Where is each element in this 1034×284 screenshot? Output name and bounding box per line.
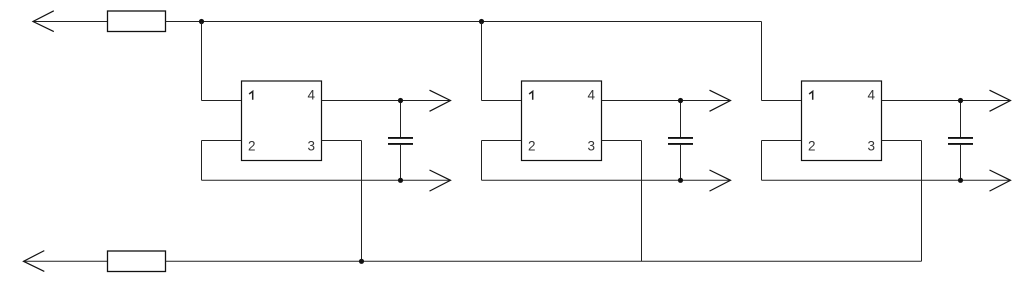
port arrow (bottom-left input): [24, 251, 45, 272]
port arrow (stage 1 top output): [430, 90, 451, 111]
svg-text:3: 3: [308, 139, 316, 154]
svg-text:2: 2: [248, 139, 256, 154]
wire: U3 pin 3 rightwards: [882, 140, 922, 142]
port arrow (stage 2 bottom output): [710, 170, 731, 191]
junction: C1 top node: [398, 98, 403, 103]
wire: U2 pin 4 to output arrow: [602, 100, 731, 102]
resistor R1: [108, 11, 166, 32]
wire: top bus node B to stage 3 corner: [482, 21, 762, 23]
port arrow (top-left input): [33, 11, 54, 32]
wire: U1 pin 4 to output arrow: [322, 100, 451, 102]
wire: U1 pin 2 leftwards: [202, 140, 242, 142]
wire: U3 pin 3 down to bottom bus: [921, 141, 923, 262]
svg-text:4: 4: [588, 88, 596, 103]
IC U2: [522, 81, 602, 161]
capacitor C2 bottom lead: [680, 145, 682, 181]
port arrow (stage 3 top output): [990, 90, 1011, 111]
U3 pin 1 label: [809, 91, 813, 99]
wire: stage 1 lower output line: [202, 179, 451, 181]
wire: bottom input to resistor R2: [24, 260, 108, 262]
capacitor C2 plates: [668, 137, 693, 139]
U1 pin 1 label: [249, 91, 253, 99]
svg-text:3: 3: [588, 139, 596, 154]
resistor R2: [108, 251, 166, 272]
wire: U2 pin 2 down: [481, 141, 483, 181]
junction: C3 top node: [958, 98, 963, 103]
wire: U2 pin 2 leftwards: [482, 140, 522, 142]
wire: U3 pin 2 leftwards: [762, 140, 802, 142]
port arrow (stage 1 bottom output): [430, 170, 451, 191]
svg-text:2: 2: [528, 139, 536, 154]
wire: node A down to U1 pin 1 level: [201, 22, 203, 101]
wire: stage 2 lower output line: [482, 179, 731, 181]
U2 pin 1 label: [529, 91, 533, 99]
wire: into U2 pin 1: [482, 100, 522, 102]
capacitor C3 plates: [948, 137, 973, 139]
junction: C3 bottom node: [958, 178, 963, 183]
wire: stage 3 lower output line: [762, 179, 1011, 181]
capacitor C2 top lead: [680, 101, 682, 138]
svg-text:3: 3: [868, 139, 876, 154]
IC U3: [802, 81, 882, 161]
capacitor C1 plates: [388, 137, 413, 139]
port arrow (stage 3 bottom output): [990, 170, 1011, 191]
wire: U3 pin 2 down: [761, 141, 763, 181]
wire: U2 pin 3 down to bottom bus: [641, 141, 643, 262]
wire: top bus corner down to U3 pin 1 level: [761, 22, 763, 101]
capacitor C1 bottom lead: [400, 145, 402, 181]
wire: node B down to U2 pin 1 level: [481, 22, 483, 101]
capacitor C1 top lead: [400, 101, 402, 138]
wire: into U3 pin 1: [762, 100, 802, 102]
svg-text:2: 2: [808, 139, 816, 154]
junction: bottom bus / U1 pin 3: [359, 259, 364, 264]
wire: U1 pin 3 rightwards: [322, 140, 362, 142]
wire: U1 pin 2 down: [201, 141, 203, 181]
junction node A: [199, 19, 204, 24]
wire: R1 to node A: [166, 21, 202, 23]
wire: top bus node A to node B: [202, 21, 482, 23]
wire: bottom bus: [166, 260, 922, 262]
svg-text:4: 4: [308, 88, 316, 103]
junction: C1 bottom node: [398, 178, 403, 183]
wire: top input to resistor R1: [33, 21, 108, 23]
capacitor C3 top lead: [960, 101, 962, 138]
wire: into U1 pin 1: [202, 100, 242, 102]
port arrow (stage 2 top output): [710, 90, 731, 111]
wire: U1 pin 3 down to bottom bus: [361, 141, 363, 262]
junction: C2 top node: [678, 98, 683, 103]
wire: U2 pin 3 rightwards: [602, 140, 642, 142]
svg-text:4: 4: [868, 88, 876, 103]
junction: C2 bottom node: [678, 178, 683, 183]
IC U1: [242, 81, 322, 161]
junction node B: [479, 19, 484, 24]
capacitor C3 bottom lead: [960, 145, 962, 181]
wire: U3 pin 4 to output arrow: [882, 100, 1011, 102]
